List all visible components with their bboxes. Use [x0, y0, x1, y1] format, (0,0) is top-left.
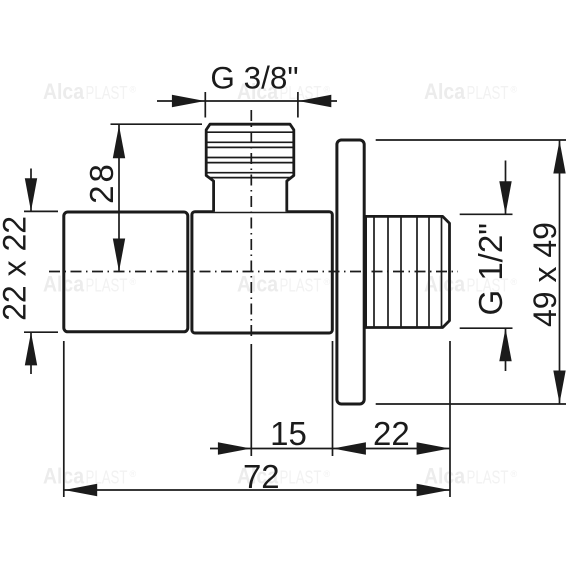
svg-text:Alca: Alca [237, 272, 279, 297]
svg-text:Alca: Alca [424, 79, 466, 104]
ext line left (72) [63, 341, 65, 497]
dim 49x49 bottom arrow [553, 371, 565, 404]
svg-text:®: ® [511, 469, 518, 479]
watermark row1 col2 [237, 79, 331, 104]
dim 28 bottom arrow [113, 239, 125, 272]
dim 22x22 top ext line [24, 210, 58, 212]
dim 72 left arrow [64, 484, 97, 496]
watermark row3 col3 [424, 464, 518, 489]
dim 22x22 top arrow [25, 178, 37, 211]
svg-text:Alca: Alca [424, 272, 466, 297]
dim G1/2 bottom arrow [499, 328, 511, 361]
svg-text:Alca: Alca [43, 272, 85, 297]
svg-text:22: 22 [373, 415, 410, 452]
dim G1/2 bottom ext line [460, 327, 513, 329]
dim G3/8 line [157, 100, 337, 102]
svg-text:®: ® [130, 85, 137, 95]
dim 15 left arrow [218, 442, 251, 454]
dim 28 top ext line [111, 123, 203, 125]
svg-text:®: ® [324, 469, 331, 479]
dim 15/22 line [210, 448, 450, 450]
svg-text:PLAST: PLAST [467, 468, 509, 488]
svg-text:Alca: Alca [237, 79, 279, 104]
watermark row2 col2 [237, 272, 331, 297]
right port thread lines [374, 216, 442, 327]
dim G3/8 left arrow [172, 95, 205, 107]
dim 22x22 top shaft [30, 169, 32, 212]
dim 49x49 top ext line [376, 139, 566, 141]
dim 22x22 bottom ext line [24, 331, 58, 333]
svg-text:PLAST: PLAST [86, 468, 128, 488]
svg-text:Alca: Alca [43, 464, 85, 489]
wall flange [337, 140, 364, 404]
watermark row3 col2 [237, 464, 331, 489]
svg-text:28: 28 [83, 161, 120, 204]
valve body [192, 212, 332, 333]
svg-text:®: ® [324, 277, 331, 287]
svg-text:Alca: Alca [424, 464, 466, 489]
ext line center (15) [250, 344, 252, 456]
dim 28 line [118, 124, 120, 271]
svg-text:G 1/2": G 1/2" [472, 223, 509, 315]
vertical centerline [250, 110, 252, 340]
watermark row2 col3 [424, 272, 518, 297]
ext line body right (15/22) [332, 341, 334, 456]
ext line right (22/72) [449, 341, 451, 497]
svg-text:PLAST: PLAST [280, 468, 322, 488]
horizontal centerline [49, 271, 458, 273]
dim 22x22 bottom arrow [25, 332, 37, 365]
svg-text:49 x 49: 49 x 49 [527, 222, 563, 327]
watermark row1 col1 [43, 79, 137, 104]
svg-text:®: ® [130, 277, 137, 287]
svg-text:22 x 22: 22 x 22 [0, 216, 32, 321]
dim 49x49 line [559, 140, 561, 404]
svg-text:PLAST: PLAST [467, 83, 509, 103]
right thread port G1/2 outline [366, 216, 450, 327]
svg-text:PLAST: PLAST [86, 83, 128, 103]
dim G1/2 top shaft [505, 161, 507, 215]
valve handle square [64, 212, 188, 332]
top thread shoulder line [208, 177, 292, 179]
dim 22 right arrow [417, 442, 450, 454]
dim 49x49 top arrow [553, 141, 565, 174]
top thread crest lines [207, 132, 292, 173]
svg-text:PLAST: PLAST [86, 276, 128, 296]
watermark row1 col3 [424, 79, 518, 104]
top thread G3/8 outline [206, 124, 294, 212]
svg-text:®: ® [324, 85, 331, 95]
dim G1/2 top ext line [460, 213, 513, 215]
dim G3/8 left tick [204, 92, 206, 118]
dim 72 right arrow [417, 484, 450, 496]
dim 15/22 middle arrow [333, 442, 366, 454]
dim G1/2 top arrow [499, 181, 511, 214]
svg-text:Alca: Alca [43, 79, 85, 104]
dim 28 top arrow [113, 125, 125, 158]
svg-text:®: ® [511, 85, 518, 95]
dim 72 line [64, 489, 450, 491]
dim 22x22 bottom shaft [30, 332, 32, 374]
svg-text:®: ® [130, 469, 137, 479]
svg-text:PLAST: PLAST [467, 276, 509, 296]
svg-text:PLAST: PLAST [280, 276, 322, 296]
svg-text:15: 15 [270, 415, 307, 452]
watermark row3 col1 [43, 464, 137, 489]
dim G3/8 right arrow [298, 95, 331, 107]
dim G3/8 right tick [297, 92, 299, 118]
svg-text:Alca: Alca [237, 464, 279, 489]
svg-text:®: ® [511, 277, 518, 287]
dim G1/2 bottom shaft [505, 328, 507, 371]
dim 49x49 bottom ext line [376, 403, 566, 405]
watermark row2 col1 [43, 272, 137, 297]
svg-text:PLAST: PLAST [280, 83, 322, 103]
